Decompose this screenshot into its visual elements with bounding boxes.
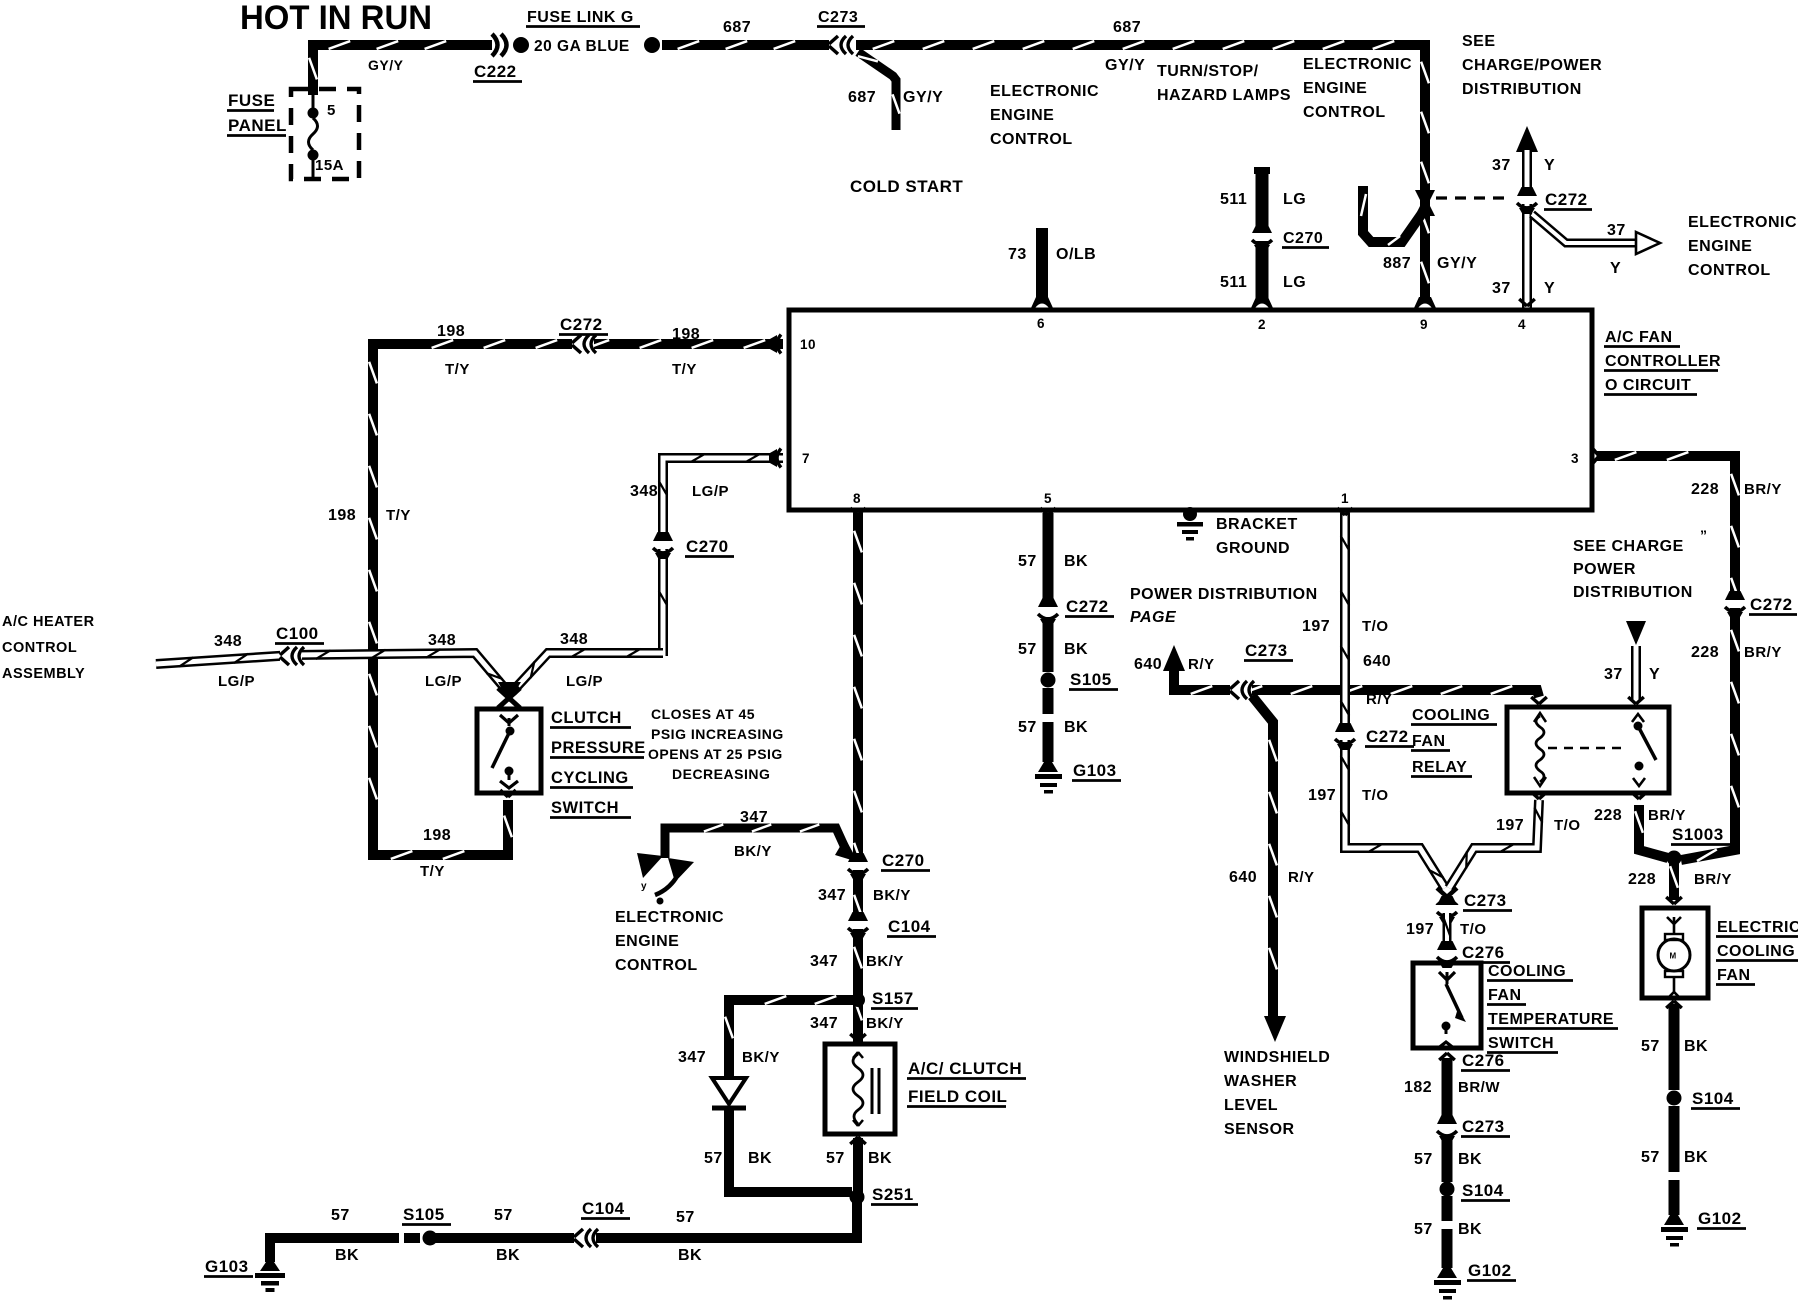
label 687 (left of C273) xyxy=(723,19,751,36)
splice S251 xyxy=(850,1190,865,1205)
label G103 (bottom) xyxy=(204,1257,253,1277)
label HOT IN RUN xyxy=(240,0,432,37)
splice S104 (fan) xyxy=(1667,1091,1682,1106)
connector C270 (511) xyxy=(1250,224,1274,251)
relay bottom pins flare xyxy=(1531,792,1647,799)
svg-text:DISTRIBUTION: DISTRIBUTION xyxy=(1462,81,1582,98)
arrow up 37 Y xyxy=(1516,126,1538,152)
wire 37 Y to relay (hollow) xyxy=(1631,646,1641,700)
coil top flare xyxy=(850,1034,866,1041)
label fuse 5 xyxy=(327,102,336,119)
label BK/Y (diode) xyxy=(742,1049,780,1066)
label 347 (diode) xyxy=(678,1049,706,1066)
svg-text:Y: Y xyxy=(1544,280,1555,297)
electric cooling fan box M1 xyxy=(1642,908,1708,998)
label BK/Y (above C270) xyxy=(873,887,911,904)
svg-text:887: 887 xyxy=(1383,255,1411,272)
wire 37 Y vertical (hollow) xyxy=(1522,150,1532,308)
label 57 (diode) xyxy=(704,1150,723,1167)
label FUSE PANEL xyxy=(227,91,287,136)
A/C clutch field coil box L1 xyxy=(825,1044,895,1134)
junction bowtie on 887 wire xyxy=(1415,190,1435,216)
label 640 (vert) xyxy=(1229,869,1257,886)
label T/Y (right) xyxy=(672,361,697,378)
label 57 BK (3) xyxy=(1018,719,1088,736)
svg-text:347: 347 xyxy=(678,1049,706,1066)
svg-text:G103: G103 xyxy=(205,1257,249,1276)
label BR/Y (fan) xyxy=(1694,871,1732,888)
svg-text:S105: S105 xyxy=(403,1205,445,1224)
connector C273 (182) xyxy=(1435,1115,1459,1142)
svg-text:57: 57 xyxy=(1018,641,1037,658)
label 228 (pin3) xyxy=(1691,481,1719,498)
svg-text:S104: S104 xyxy=(1462,1181,1504,1200)
svg-text:8: 8 xyxy=(853,491,861,506)
relay dashed link xyxy=(1548,747,1624,750)
svg-text:OPENS AT 25 PSIG: OPENS AT 25 PSIG xyxy=(648,746,783,762)
svg-text:ENGINE: ENGINE xyxy=(1688,238,1752,255)
pin 1 wire flare xyxy=(1337,508,1353,515)
svg-text:SEE CHARGE: SEE CHARGE xyxy=(1573,538,1684,555)
label CLOSES/OPENS PSIG xyxy=(648,706,784,782)
svg-text:7: 7 xyxy=(802,451,810,466)
svg-text:197: 197 xyxy=(1496,817,1524,834)
terminal dot after 20 GA BLUE xyxy=(644,37,660,53)
label 197 (temp) xyxy=(1406,921,1434,938)
label C273 (197 V) xyxy=(1463,891,1512,911)
label 57 (b3) xyxy=(676,1209,695,1226)
wire 197 T/O pin1 (hollow) xyxy=(1341,513,1543,888)
svg-text:198: 198 xyxy=(328,507,356,524)
label S251 xyxy=(871,1185,918,1205)
label 511 (upper) xyxy=(1220,191,1247,208)
splice S105 (bottom) xyxy=(399,1230,438,1246)
label 15A xyxy=(315,157,344,174)
svg-text:ELECTRONIC: ELECTRONIC xyxy=(1303,56,1412,73)
label LG/P (far left) xyxy=(218,673,255,690)
label 198 (right segment) xyxy=(672,326,700,343)
svg-text:GY/Y: GY/Y xyxy=(1105,57,1145,74)
svg-text:37: 37 xyxy=(1604,666,1623,683)
label ELECTRONIC ENGINE CONTROL (right) xyxy=(1688,214,1797,279)
label ELECTRONIC ENGINE CONTROL (left) xyxy=(990,83,1099,148)
svg-text:198: 198 xyxy=(672,326,700,343)
svg-text:6: 6 xyxy=(1037,316,1045,331)
label C222 xyxy=(473,62,522,82)
svg-text:BK: BK xyxy=(678,1247,702,1264)
label 347 (EEC branch) xyxy=(740,809,768,826)
svg-text:G102: G102 xyxy=(1698,1209,1742,1228)
label 348 (mid) xyxy=(428,632,456,649)
label C272 (197) xyxy=(1365,727,1414,747)
svg-text:CONTROL: CONTROL xyxy=(1303,104,1386,121)
label BK (b2) xyxy=(496,1247,520,1264)
connector C272 (37 junction) xyxy=(1515,187,1539,214)
pin 3 number xyxy=(1571,451,1579,466)
svg-text:SENSOR: SENSOR xyxy=(1224,1121,1295,1138)
pin 9 number xyxy=(1420,317,1428,332)
svg-text:ELECTRIC: ELECTRIC xyxy=(1717,919,1798,936)
wire 57 BK temp switch xyxy=(1442,1136,1453,1268)
label C270 (511) xyxy=(1282,230,1329,248)
svg-text:PSIG INCREASING: PSIG INCREASING xyxy=(651,726,784,742)
label 20 GA BLUE xyxy=(534,38,630,55)
relay coil xyxy=(1534,713,1546,786)
svg-text:G103: G103 xyxy=(1073,761,1117,780)
label 57 BK (fan1) xyxy=(1641,1038,1708,1055)
svg-text:640: 640 xyxy=(1229,869,1257,886)
label Y (branch) xyxy=(1610,260,1621,277)
svg-text:ELECTRONIC: ELECTRONIC xyxy=(615,909,724,926)
svg-text:FUSE LINK G: FUSE LINK G xyxy=(527,9,634,26)
label 57 (coil) xyxy=(826,1150,845,1167)
svg-text:POWER: POWER xyxy=(1573,561,1636,578)
label 57 BK (fan2) xyxy=(1641,1149,1708,1166)
label LG/P (right) xyxy=(566,673,603,690)
svg-text:C270: C270 xyxy=(1283,230,1323,247)
label ELECTRONIC ENGINE CONTROL (bottom) xyxy=(615,909,724,974)
svg-text:BK: BK xyxy=(748,1150,772,1167)
label BK/Y (below S157) xyxy=(866,1015,904,1032)
svg-text:57: 57 xyxy=(1018,553,1037,570)
label T/O (upper) xyxy=(1362,618,1389,635)
svg-text:Y: Y xyxy=(1649,666,1660,683)
svg-text:C276: C276 xyxy=(1462,943,1505,962)
svg-text:20 GA BLUE: 20 GA BLUE xyxy=(534,38,630,55)
wire 640 R/Y horizontal xyxy=(1174,668,1539,697)
label 73 xyxy=(1008,246,1027,263)
label S157 xyxy=(871,989,918,1009)
svg-text:182: 182 xyxy=(1404,1079,1432,1096)
label BK (diode) xyxy=(748,1150,772,1167)
svg-text:PANEL: PANEL xyxy=(228,116,287,135)
junction X at 197 V xyxy=(1437,888,1457,906)
svg-text:C276: C276 xyxy=(1462,1051,1505,1070)
svg-text:COLD START: COLD START xyxy=(850,177,963,196)
svg-text:C273: C273 xyxy=(1462,1117,1505,1136)
connector C273 (top) xyxy=(829,35,853,55)
wire 687 GY/Y long top run to pin 9 xyxy=(856,41,1429,308)
clutch pressure cycling switch box SW1 xyxy=(477,709,541,793)
label C272 (37 junction) xyxy=(1544,190,1592,210)
label 347 (mid) xyxy=(810,953,838,970)
wire 73 O/LB at pin 6 xyxy=(1031,228,1053,308)
svg-text:G102: G102 xyxy=(1468,1261,1512,1280)
svg-text:PRESSURE: PRESSURE xyxy=(551,739,646,757)
label 37 (upper) xyxy=(1492,157,1511,174)
label S1003 xyxy=(1671,825,1730,845)
wire 228 BR/Y S1003 to fan xyxy=(1670,858,1678,900)
svg-text:R/Y: R/Y xyxy=(1288,869,1315,886)
svg-text:C270: C270 xyxy=(686,537,729,556)
temp switch bottom flare xyxy=(1439,1053,1455,1060)
splice S1003 xyxy=(1667,851,1682,866)
svg-text:57: 57 xyxy=(1018,719,1037,736)
svg-text:C272: C272 xyxy=(1750,595,1793,614)
svg-text:BR/Y: BR/Y xyxy=(1648,807,1686,824)
label 228 (relay) xyxy=(1594,807,1622,824)
arrow up 640 xyxy=(1163,645,1185,671)
pin 7 number xyxy=(802,451,810,466)
svg-text:C273: C273 xyxy=(1245,641,1288,660)
svg-text:T/O: T/O xyxy=(1554,817,1581,834)
svg-text:A/C HEATER: A/C HEATER xyxy=(2,614,95,630)
connector C270 (347) xyxy=(846,853,870,880)
svg-text:348: 348 xyxy=(630,483,658,500)
svg-text:228: 228 xyxy=(1628,871,1656,888)
label BK (coil) xyxy=(868,1150,892,1167)
label COLD START xyxy=(850,177,963,196)
label S104 (temp) xyxy=(1461,1181,1510,1201)
connector C104 (bottom) xyxy=(574,1228,598,1248)
wire 348 LG/P horizontal (hollow) xyxy=(156,649,663,692)
svg-text:1: 1 xyxy=(1341,491,1349,506)
svg-text:511: 511 xyxy=(1220,191,1247,208)
svg-text:347: 347 xyxy=(810,953,838,970)
label 640 (arrow) xyxy=(1134,656,1162,673)
label 887 (junction) xyxy=(1383,255,1411,272)
label 57 BK (t2) xyxy=(1414,1221,1482,1238)
label 197 (upper) xyxy=(1302,618,1330,635)
label 198 (bottom) xyxy=(423,827,451,844)
label ELECTRONIC ENGINE CONTROL (mid) xyxy=(1303,56,1412,121)
cooling fan relay box K1 xyxy=(1507,707,1669,793)
svg-text:687: 687 xyxy=(723,19,751,36)
svg-text:197: 197 xyxy=(1302,618,1330,635)
svg-text:A/C FAN: A/C FAN xyxy=(1605,329,1673,346)
label 57 (b2) xyxy=(494,1207,513,1224)
svg-text:ENGINE: ENGINE xyxy=(615,933,679,950)
connector C104 (347) xyxy=(846,912,870,939)
svg-text:LG: LG xyxy=(1283,274,1306,291)
connector C270 (348) xyxy=(651,532,675,559)
svg-text:CONTROL: CONTROL xyxy=(615,957,698,974)
svg-text:57: 57 xyxy=(1414,1151,1433,1168)
label WINDSHIELD WASHER LEVEL SENSOR xyxy=(1224,1049,1330,1138)
svg-text:197: 197 xyxy=(1308,787,1336,804)
label Y (upper) xyxy=(1544,157,1555,174)
pin 6 number xyxy=(1037,316,1045,331)
pin 1 number xyxy=(1341,491,1349,506)
svg-text:FIELD COIL: FIELD COIL xyxy=(908,1087,1007,1106)
label GY/Y (fuse wire) xyxy=(368,57,404,73)
junction X at clutch switch xyxy=(498,682,521,708)
wire 198 T/Y pin10 long run xyxy=(369,340,783,859)
svg-text:CHARGE/POWER: CHARGE/POWER xyxy=(1462,57,1602,74)
svg-text:BK: BK xyxy=(868,1150,892,1167)
label 348 (right) xyxy=(560,631,588,648)
svg-text:R/Y: R/Y xyxy=(1366,691,1393,708)
label C276 (temp) xyxy=(1461,943,1510,963)
svg-text:57: 57 xyxy=(676,1209,695,1226)
label A/C FAN CONTROLLER O CIRCUIT xyxy=(1604,329,1721,395)
label 37 (branch) xyxy=(1607,222,1626,239)
svg-text:347: 347 xyxy=(818,887,846,904)
svg-text:640: 640 xyxy=(1363,653,1391,670)
label BR/W xyxy=(1458,1079,1500,1096)
label BK (b3) xyxy=(678,1247,702,1264)
svg-text:S251: S251 xyxy=(872,1185,914,1204)
svg-text:CYCLING: CYCLING xyxy=(551,769,629,787)
svg-text:ASSEMBLY: ASSEMBLY xyxy=(2,666,85,682)
EEC arrow symbol xyxy=(637,853,694,905)
svg-text:57: 57 xyxy=(1414,1221,1433,1238)
arrow down 640 windshield xyxy=(1264,1016,1286,1042)
svg-text:T/O: T/O xyxy=(1362,618,1389,635)
label BK/Y (mid) xyxy=(866,953,904,970)
label GY/Y (top run) xyxy=(1105,57,1145,74)
pin 5 wire flare xyxy=(1040,508,1056,515)
pin 9 wire end flare xyxy=(1414,297,1436,308)
svg-text:”: ” xyxy=(1700,527,1708,543)
label 348 (far left) xyxy=(214,633,242,650)
fan bottom flare xyxy=(1666,1001,1682,1008)
label CLUTCH PRESSURE CYCLING SWITCH xyxy=(550,709,646,818)
connector C273 (197 V) xyxy=(1435,896,1459,923)
svg-text:CONTROL: CONTROL xyxy=(1688,262,1771,279)
svg-text:57: 57 xyxy=(1641,1038,1660,1055)
temp switch internals xyxy=(1437,972,1466,1049)
svg-text:S105: S105 xyxy=(1070,670,1112,689)
relay 37 pin flare xyxy=(1628,697,1644,704)
label T/O (lower) xyxy=(1362,787,1389,804)
svg-text:BK/Y: BK/Y xyxy=(866,1015,904,1032)
svg-text:228: 228 xyxy=(1691,481,1719,498)
pin 7 wire end flare xyxy=(769,449,781,468)
ground G103 (pin5) xyxy=(1035,762,1062,794)
svg-text:TEMPERATURE: TEMPERATURE xyxy=(1488,1011,1614,1028)
label C272 (57) xyxy=(1065,597,1114,617)
label 347 (above C270) xyxy=(818,887,846,904)
fuse panel dashed box xyxy=(291,89,359,179)
svg-text:C272: C272 xyxy=(1366,727,1409,746)
wire hook joining 887 at C272 junction xyxy=(1361,186,1423,245)
label A/C/ CLUTCH FIELD COIL xyxy=(907,1059,1026,1107)
label TURN/STOP/ HAZARD LAMPS xyxy=(1157,63,1291,104)
svg-text:C272: C272 xyxy=(1545,190,1588,209)
label R/Y (vert) xyxy=(1288,869,1315,886)
label COOLING FAN RELAY xyxy=(1411,707,1497,777)
connector C272 (228) xyxy=(1723,591,1747,618)
svg-text:C273: C273 xyxy=(818,9,858,26)
svg-text:BK: BK xyxy=(1458,1221,1482,1238)
label 511 (lower) xyxy=(1220,274,1247,291)
svg-text:CLUTCH: CLUTCH xyxy=(551,709,622,727)
svg-text:A/C/ CLUTCH: A/C/ CLUTCH xyxy=(908,1059,1022,1078)
svg-text:57: 57 xyxy=(704,1150,723,1167)
svg-text:ELECTRONIC: ELECTRONIC xyxy=(990,83,1099,100)
wire 197 T/O to temp switch (hollow) xyxy=(1444,913,1450,950)
wire 57 BK below fan xyxy=(1669,1004,1680,1215)
label LG/P (pin7) xyxy=(692,483,729,500)
label R/Y (arrow) xyxy=(1188,656,1215,673)
wire 228 BR/Y relay to S1003 xyxy=(1635,805,1668,858)
svg-text:C272: C272 xyxy=(560,315,603,334)
label SEE CHARGE POWER DISTRIBUTION xyxy=(1573,527,1708,601)
svg-text:57: 57 xyxy=(494,1207,513,1224)
fan motor symbol xyxy=(1658,917,1690,999)
svg-text:LG/P: LG/P xyxy=(425,673,462,690)
label 57 (b1) xyxy=(331,1207,350,1224)
label SEE CHARGE/POWER DISTRIBUTION xyxy=(1462,33,1602,98)
svg-text:FUSE: FUSE xyxy=(228,91,275,110)
svg-text:WINDSHIELD: WINDSHIELD xyxy=(1224,1049,1330,1066)
label BK/Y (EEC branch) xyxy=(734,843,772,860)
svg-text:T/Y: T/Y xyxy=(672,361,697,378)
svg-text:348: 348 xyxy=(214,633,242,650)
label S104 (fan) xyxy=(1691,1089,1740,1109)
svg-text:BK/Y: BK/Y xyxy=(866,953,904,970)
pin 4 wire end flare xyxy=(1519,299,1535,306)
svg-text:R/Y: R/Y xyxy=(1188,656,1215,673)
label BK (b1) xyxy=(335,1247,359,1264)
pin 10 wire end flare xyxy=(769,335,781,354)
svg-text:SEE: SEE xyxy=(1462,33,1496,50)
label C104 (347) xyxy=(887,917,936,937)
label C104 (bottom) xyxy=(581,1199,630,1219)
svg-text:COOLING: COOLING xyxy=(1488,963,1566,980)
svg-text:2: 2 xyxy=(1258,317,1266,332)
label C273 (182) xyxy=(1461,1117,1510,1137)
arrow down 37 Y (relay) xyxy=(1626,621,1646,645)
wire 182 BR/W xyxy=(1442,1058,1453,1122)
pin 2 number xyxy=(1258,317,1266,332)
clutch switch bottom flare xyxy=(500,790,516,797)
svg-text:T/Y: T/Y xyxy=(420,863,445,880)
label BRACKET GROUND xyxy=(1216,516,1298,557)
branch 640 R/Y down to windshield xyxy=(1252,696,1277,1018)
wire 347 diode branch xyxy=(725,996,853,1192)
svg-text:BK: BK xyxy=(1064,553,1088,570)
wire 687 from fuse panel to fuse link (GY/Y) xyxy=(309,41,492,95)
branch 37 Y to EEC (hollow, right arrow) xyxy=(1532,214,1660,254)
relay top-left pin flare xyxy=(1531,697,1547,704)
splice S104 (temp) xyxy=(1440,1182,1455,1197)
label 197 (relay side) xyxy=(1496,817,1524,834)
svg-text:57: 57 xyxy=(1641,1149,1660,1166)
label 228 (fan) xyxy=(1628,871,1656,888)
svg-text:GY/Y: GY/Y xyxy=(1437,255,1477,272)
svg-text:GY/Y: GY/Y xyxy=(903,89,943,106)
label LG (lower) xyxy=(1283,274,1306,291)
svg-text:57: 57 xyxy=(826,1150,845,1167)
svg-text:CONTROLLER: CONTROLLER xyxy=(1605,353,1721,370)
svg-text:BR/Y: BR/Y xyxy=(1694,871,1732,888)
svg-text:9: 9 xyxy=(1420,317,1428,332)
label 37 (lower) xyxy=(1492,280,1511,297)
label 347 (below S157) xyxy=(810,1015,838,1032)
splice S105 xyxy=(1041,673,1056,688)
clutch switch internals xyxy=(492,715,518,788)
connector C272 (198) xyxy=(572,334,596,354)
label C272 (228) xyxy=(1749,595,1797,615)
svg-text:FAN: FAN xyxy=(1412,733,1446,750)
svg-text:4: 4 xyxy=(1518,317,1526,332)
label Y (relay) xyxy=(1649,666,1660,683)
svg-text:BK: BK xyxy=(1064,641,1088,658)
svg-text:ENGINE: ENGINE xyxy=(1303,80,1367,97)
branch 347 to EEC xyxy=(665,825,858,863)
svg-text:511: 511 xyxy=(1220,274,1247,291)
label C276 (below) xyxy=(1461,1051,1510,1071)
ground G102 (temp) xyxy=(1434,1268,1461,1300)
svg-text:BR/W: BR/W xyxy=(1458,1079,1500,1096)
label T/Y (bottom) xyxy=(420,863,445,880)
svg-text:WASHER: WASHER xyxy=(1224,1073,1297,1090)
field coil internals xyxy=(853,1052,879,1126)
svg-text:198: 198 xyxy=(437,323,465,340)
svg-text:ELECTRONIC: ELECTRONIC xyxy=(1688,214,1797,231)
